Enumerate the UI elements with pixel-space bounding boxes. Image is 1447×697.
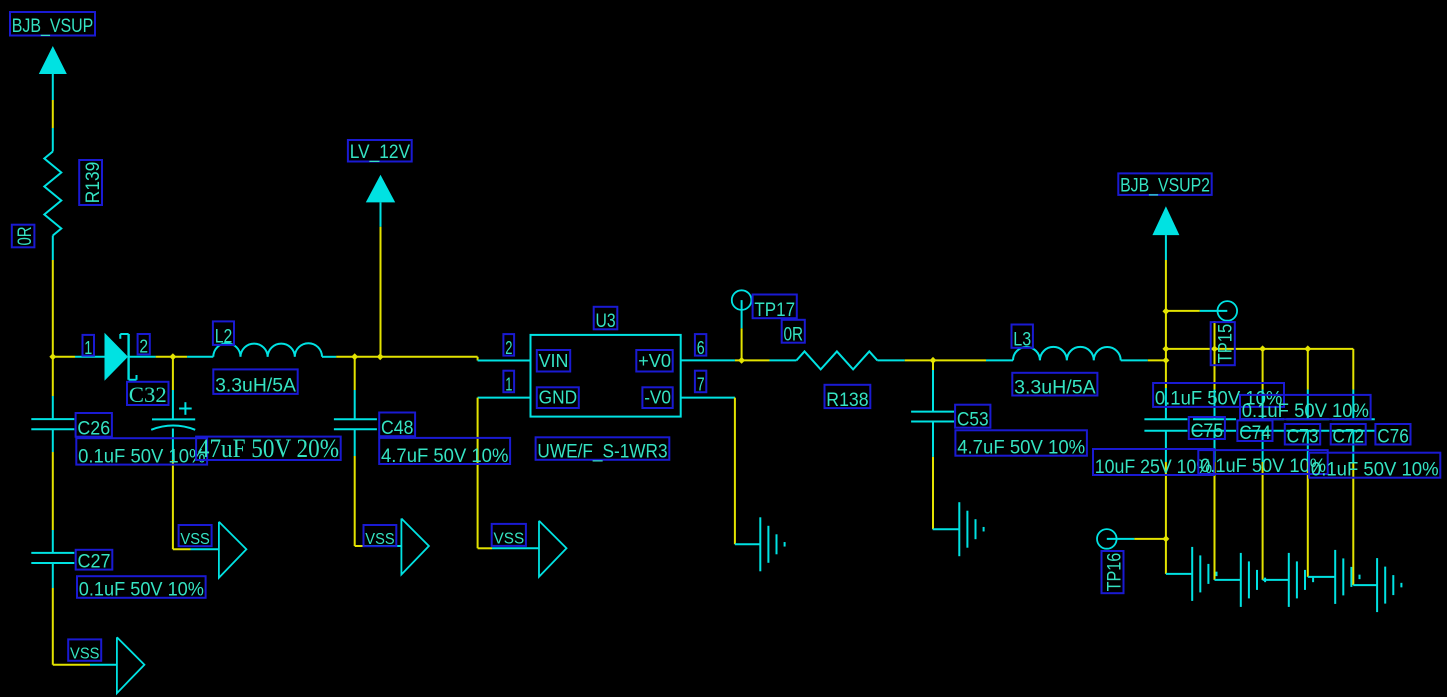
svg-text:0.1uF 50V 10%: 0.1uF 50V 10% (1311, 460, 1439, 481)
svg-text:0R: 0R (784, 324, 804, 346)
svg-text:C26: C26 (77, 418, 110, 440)
svg-text:+V0: +V0 (638, 351, 671, 371)
svg-text:C72: C72 (1333, 425, 1365, 447)
svg-text:6: 6 (697, 338, 705, 358)
svg-text:3.3uH/5A: 3.3uH/5A (1014, 377, 1096, 398)
svg-text:VSS: VSS (494, 531, 525, 548)
svg-text:C53: C53 (957, 409, 989, 431)
svg-text:L3: L3 (1013, 329, 1031, 351)
svg-text:C32: C32 (129, 382, 167, 407)
svg-text:UWE/F_S-1WR3: UWE/F_S-1WR3 (537, 442, 667, 463)
svg-text:VSS: VSS (365, 531, 394, 548)
svg-text:C27: C27 (78, 550, 111, 572)
svg-text:TP17: TP17 (754, 299, 795, 321)
svg-text:7: 7 (697, 374, 705, 394)
svg-text:TP16: TP16 (1103, 553, 1125, 592)
svg-text:0.1uF 50V 10%: 0.1uF 50V 10% (79, 580, 204, 601)
svg-text:U3: U3 (596, 310, 616, 332)
svg-text:0R: 0R (14, 226, 36, 245)
svg-text:R138: R138 (826, 389, 868, 411)
svg-text:2: 2 (505, 338, 512, 358)
svg-text:2: 2 (139, 337, 148, 357)
svg-text:0.1uF 50V 10%: 0.1uF 50V 10% (78, 446, 205, 467)
svg-text:R139: R139 (82, 162, 104, 204)
svg-text:L2: L2 (215, 326, 233, 348)
svg-text:VIN: VIN (539, 351, 569, 371)
svg-text:C48: C48 (381, 417, 413, 439)
svg-text:4.7uF 50V 10%: 4.7uF 50V 10% (957, 438, 1085, 459)
svg-text:BJB_VSUP: BJB_VSUP (12, 16, 94, 37)
svg-text:1: 1 (505, 374, 512, 394)
svg-text:-V0: -V0 (644, 388, 671, 408)
svg-text:1: 1 (84, 338, 92, 358)
svg-text:TP15: TP15 (1215, 324, 1237, 364)
svg-text:C73: C73 (1287, 425, 1319, 447)
svg-text:GND: GND (539, 388, 578, 408)
svg-text:BJB_VSUP2: BJB_VSUP2 (1120, 175, 1210, 196)
svg-text:C74: C74 (1239, 422, 1271, 444)
svg-text:3.3uH/5A: 3.3uH/5A (215, 376, 296, 397)
svg-text:C76: C76 (1377, 425, 1409, 447)
svg-text:VSS: VSS (70, 645, 100, 662)
svg-text:LV_12V: LV_12V (350, 142, 411, 163)
svg-text:C75: C75 (1191, 420, 1224, 442)
svg-text:0.1uF 50V 10%: 0.1uF 50V 10% (1242, 401, 1369, 422)
svg-text:10uF 25V 10%: 10uF 25V 10% (1095, 457, 1212, 478)
svg-text:VSS: VSS (180, 531, 210, 548)
svg-text:0.1uF 50V 10%: 0.1uF 50V 10% (1200, 456, 1326, 477)
svg-text:47uF 50V 20%: 47uF 50V 20% (198, 434, 339, 463)
svg-text:4.7uF 50V 10%: 4.7uF 50V 10% (381, 446, 508, 467)
